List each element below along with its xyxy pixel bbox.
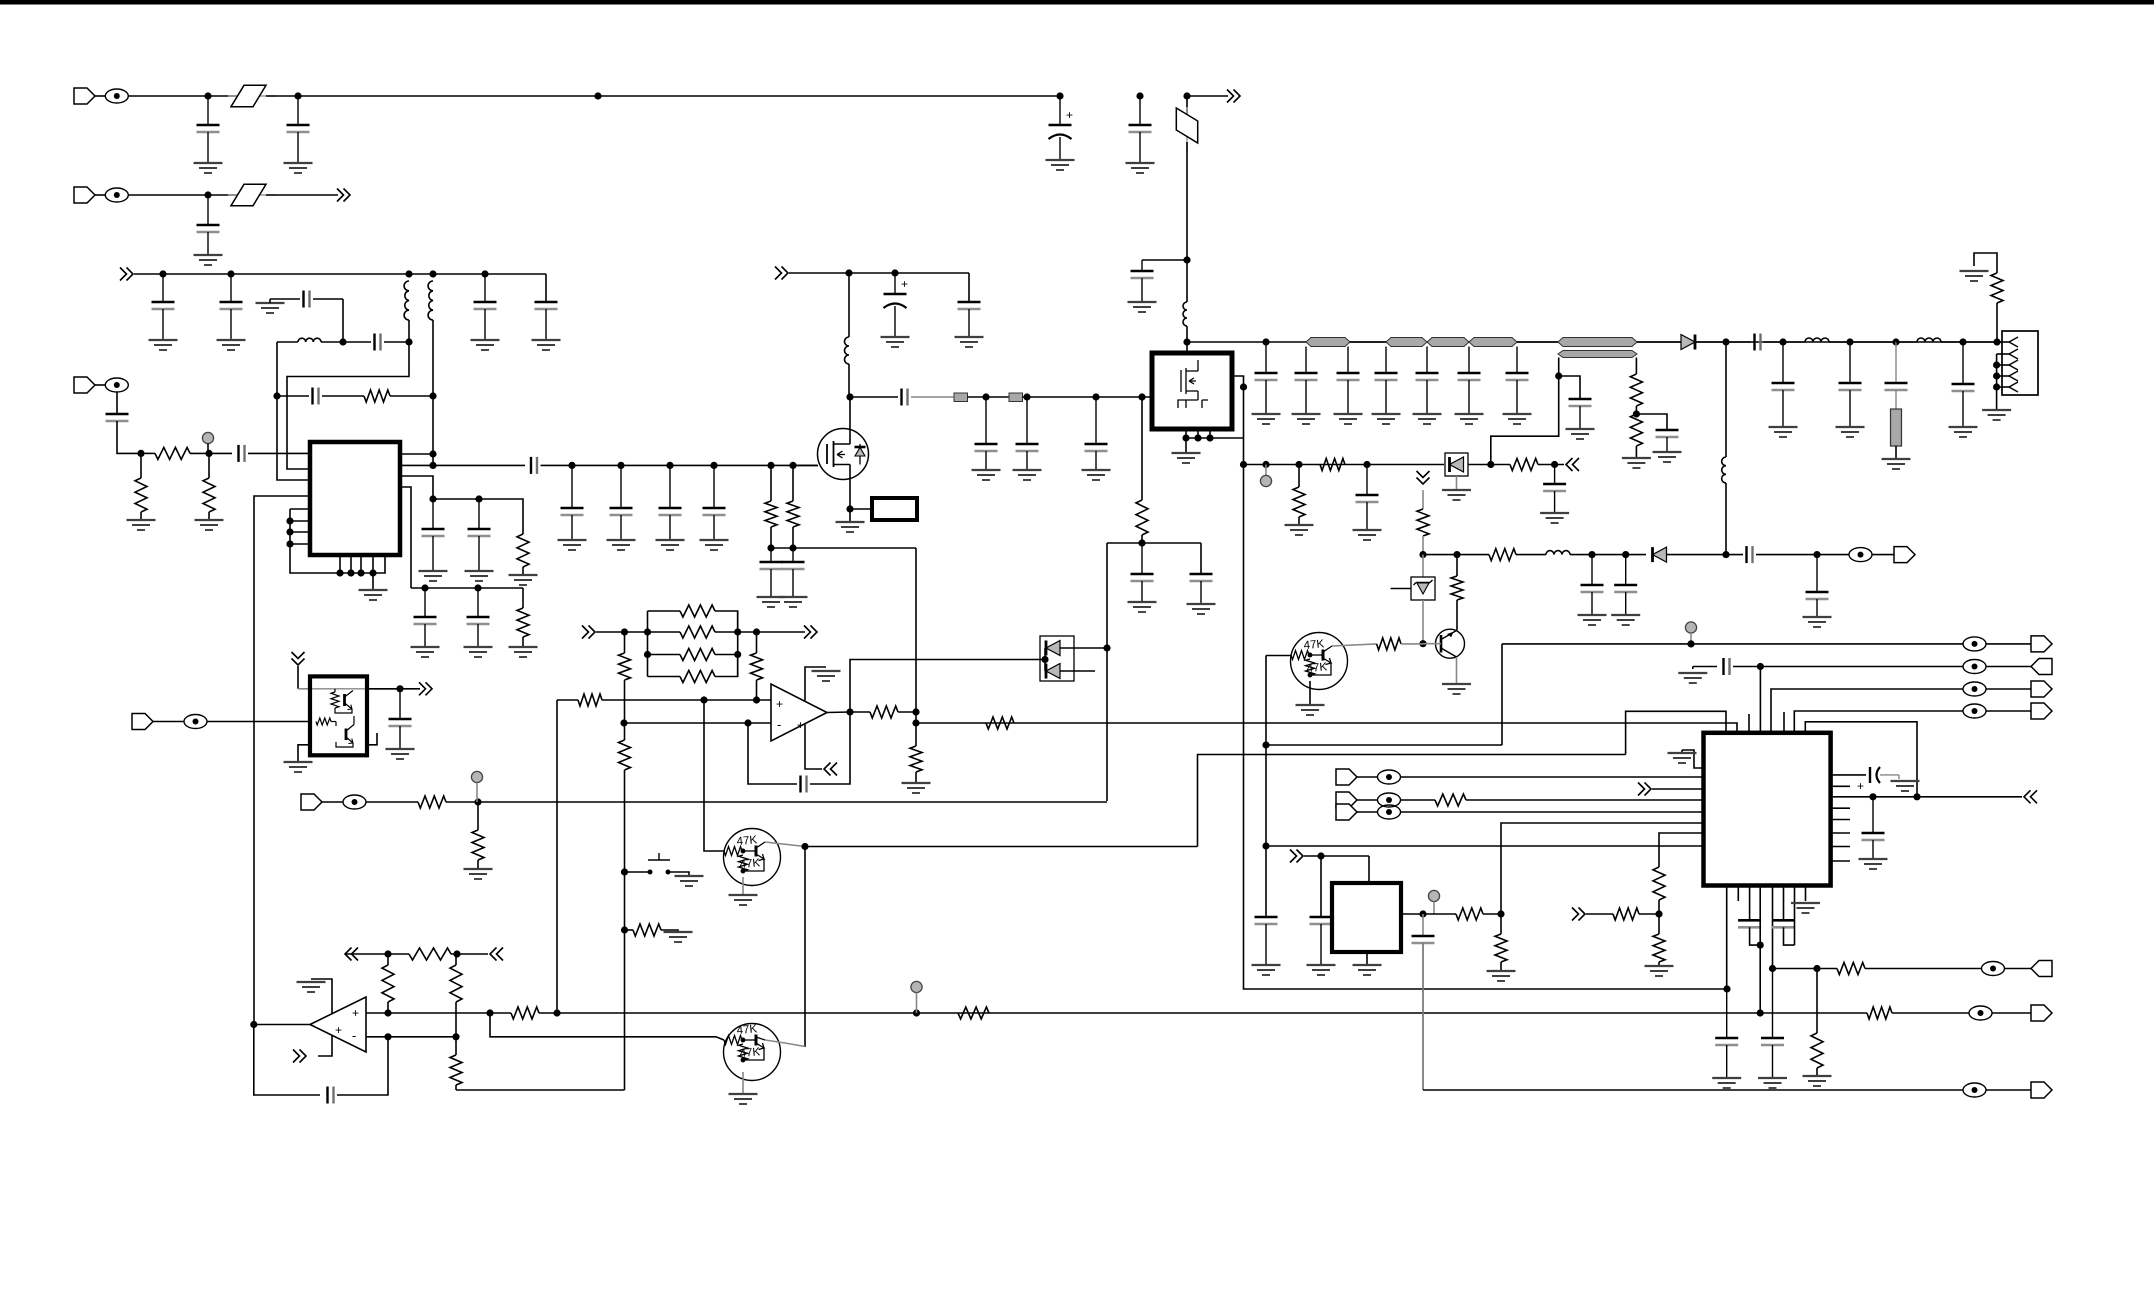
wire Q5 collector stub — [765, 1040, 785, 1043]
wire L8 out — [1941, 341, 1997, 343]
svg-text:+: + — [335, 1023, 342, 1037]
ground R6 — [509, 647, 538, 657]
wire PA output pin — [1232, 376, 1244, 465]
wire FB6 to U6 — [1401, 776, 1704, 778]
wire FB8 to U6 — [1401, 811, 1704, 813]
test point TP7 — [1428, 890, 1439, 901]
connector J17 — [2031, 1005, 2052, 1021]
ground C35 — [1252, 414, 1281, 424]
connector J11 — [2031, 681, 2052, 697]
svg-text:+: + — [901, 277, 908, 291]
node C5 tap — [1183, 256, 1190, 263]
resistor R28 — [680, 626, 715, 638]
wire C29 to R9 — [911, 396, 954, 398]
wire D2 to node — [1667, 554, 1727, 556]
wire R12 junction — [1635, 406, 1637, 414]
wire to F3 — [208, 194, 238, 196]
wire net to R23 — [738, 631, 757, 633]
stub TP6 — [476, 783, 478, 802]
junction C30 — [982, 393, 989, 400]
junction C27 — [891, 269, 898, 276]
wire J4 pin4 — [1997, 375, 2009, 377]
connector J12 — [2031, 703, 2052, 719]
wire J1-FB1 — [94, 95, 105, 97]
capacitor C3 (polarized) — [1049, 96, 1074, 160]
wire to C47 — [1559, 376, 1580, 399]
capacitor C45 + resonator — [1885, 342, 1908, 409]
wire J7-FB4 — [152, 721, 184, 723]
capacitor C13 — [313, 388, 319, 405]
capacitor C9 — [474, 274, 497, 340]
wire clk line vertical — [1422, 943, 1424, 1090]
diode D4a — [1046, 641, 1060, 656]
ground C34 — [1187, 604, 1216, 614]
lead R6 — [522, 637, 524, 647]
off-page VIN right — [1227, 90, 1240, 103]
resistor R19 — [1320, 459, 1345, 471]
ground Q5 — [729, 1094, 758, 1104]
ground C37 — [1334, 414, 1363, 424]
J4 pin3 — [2009, 360, 2018, 370]
wire U4 out — [254, 1024, 310, 1026]
resistor R41 — [472, 830, 484, 860]
lead R11 — [1141, 397, 1143, 500]
wire to R33 — [625, 929, 634, 931]
junction C59 — [1317, 852, 1324, 859]
junction R18 — [1295, 461, 1302, 468]
junction C46 — [1959, 338, 1966, 345]
off-page arrow U4 supply — [293, 1050, 306, 1063]
lead R36b — [455, 1085, 457, 1090]
junction C50 — [1622, 551, 1629, 558]
wire drain to C29 — [850, 396, 898, 398]
resistor R45 — [1653, 867, 1665, 900]
svg-text:+: + — [797, 718, 804, 732]
wire R20 out — [1538, 464, 1564, 466]
junction C9 — [481, 270, 488, 277]
M1 drain lead — [849, 429, 851, 445]
ground R41 — [464, 869, 493, 879]
junction R45 — [1655, 910, 1662, 917]
wire to C51 — [1726, 554, 1743, 556]
wire R17 to L9 — [1516, 554, 1546, 556]
capacitor C10 — [535, 302, 558, 340]
lead R43b — [1500, 962, 1502, 971]
off-page arrow U3 supply — [824, 763, 837, 776]
off-page arrow U5 top — [292, 652, 305, 665]
resistor R9 (SMD) — [954, 393, 968, 402]
wire C15 to U1 pin1 — [248, 452, 310, 454]
resistor R17 — [1489, 549, 1516, 561]
wire to J16 — [2005, 968, 2032, 970]
wire bus ground — [372, 573, 374, 590]
wire C65 to bus — [1750, 927, 1761, 945]
junction U3 output — [846, 708, 853, 715]
capacitor C23 — [659, 465, 682, 540]
capacitor C6 — [197, 195, 220, 255]
J4 pin2 — [2009, 349, 2018, 359]
wire corner C10 — [545, 274, 547, 302]
capacitor C28 — [958, 302, 981, 337]
M1 drain stub — [834, 443, 851, 445]
capacitor C53 — [1356, 465, 1379, 531]
wire U4 fb down — [254, 1025, 320, 1096]
junction C7 — [159, 270, 166, 277]
test point oval row1 — [1963, 637, 1986, 651]
wire op-amp1 output up — [850, 660, 1016, 713]
wire base feed Q4 — [704, 700, 724, 851]
wire J3-FB3 — [94, 384, 105, 386]
junction PA gnd1 — [1182, 434, 1189, 441]
wire PA-out long path to MCU — [1244, 465, 1728, 990]
wire L3 bottom to node H — [432, 320, 434, 396]
junction R7 — [767, 462, 774, 469]
transistor Q1 (47K digital) — [1291, 633, 1348, 690]
wire bias node to feedback — [771, 547, 916, 549]
resistor R23 — [751, 653, 763, 680]
ferrite bead FB8 — [1378, 805, 1401, 819]
wire U3 out stub — [827, 711, 850, 714]
wire +line to R50 — [1760, 1012, 1867, 1014]
wire mid branch R — [715, 631, 738, 633]
wire +line w — [490, 1012, 511, 1014]
wire zener top — [1422, 555, 1424, 577]
stub U6 pinR2 — [1831, 785, 1850, 787]
lead R16b — [1456, 600, 1458, 630]
wire U4 - in line — [366, 1036, 456, 1038]
wire detector line — [1244, 464, 1445, 466]
node B (C2 tap) — [294, 92, 301, 99]
capacitor C19 — [414, 588, 437, 647]
ground R25 — [902, 783, 931, 793]
junction U4 out — [250, 1021, 257, 1028]
wire Q5 collector2 — [785, 1043, 805, 1047]
junction C8 — [227, 270, 234, 277]
wire row2 east — [1760, 666, 1963, 668]
wire top branch L — [648, 610, 681, 612]
svg-text:-: - — [352, 1028, 356, 1043]
capacitor C39 — [1416, 347, 1439, 415]
wire to J11 — [1986, 688, 2031, 690]
junction pin12 — [369, 569, 376, 576]
wire J4 pin5 — [1997, 386, 2009, 388]
connector J13 — [1336, 769, 1357, 785]
resistor R18 — [1293, 487, 1305, 517]
stub U6 pinR y820 — [1831, 819, 1850, 821]
junction long line — [912, 719, 919, 726]
junction C31 — [1023, 393, 1030, 400]
wire J15-FB8 — [1356, 811, 1378, 813]
wire Q4 collector — [765, 842, 805, 847]
ground R48 — [1803, 1076, 1832, 1086]
wire bot branch R — [715, 655, 738, 677]
capacitor C52 — [1806, 555, 1829, 617]
wire to J9 — [1986, 1089, 2031, 1091]
junction coupler — [1555, 372, 1562, 379]
wire U5 gnd pin — [298, 745, 310, 762]
node drain junction — [846, 393, 853, 400]
wire J8-FB5 — [321, 801, 343, 803]
wire J13-FB6 — [1356, 776, 1378, 778]
wire R15 down — [1422, 536, 1424, 555]
wire SW1 to gnd — [668, 872, 689, 876]
lead R18 — [1298, 465, 1300, 488]
resistor R34 — [382, 965, 394, 1002]
resistor R3 — [155, 447, 190, 459]
wire U6 pinR3 (status) — [1831, 796, 2022, 798]
dual diode D4 (boxed) — [1040, 636, 1074, 681]
wire to R15 — [1422, 490, 1424, 509]
resistor R22 — [578, 694, 602, 706]
test point oval row4 — [1963, 704, 1986, 718]
capacitor C47 — [1569, 399, 1592, 429]
resistor R38 — [511, 1007, 539, 1019]
stub U6 top pin6 — [1783, 712, 1785, 733]
wire R42 out — [1483, 913, 1501, 915]
Q5 internals — [724, 1035, 765, 1062]
photo-diode D3 (boxed) — [1445, 453, 1468, 476]
wire U1 pin15 (IF out) — [400, 464, 525, 466]
wire gnd to C61 — [1693, 666, 1717, 668]
wire to J6 — [1986, 643, 2031, 645]
connector J3 — [74, 377, 95, 393]
resistor R6 — [517, 608, 529, 637]
inductor L9 — [1546, 551, 1570, 555]
wire Q1 emitter gnd — [1309, 681, 1311, 705]
lead R34b — [387, 1002, 389, 1013]
junction bus L2 — [644, 651, 651, 658]
junction pin8 — [286, 540, 293, 547]
wire C61 to node — [1733, 666, 1760, 668]
node A (C1 tap) — [204, 92, 211, 99]
ground R5 — [509, 575, 538, 585]
off-page row2 — [337, 189, 350, 202]
junction net bus L — [644, 628, 651, 635]
wire R45 to MCU — [1659, 833, 1704, 867]
TCXO X2 — [1332, 883, 1401, 952]
wire node E down — [276, 342, 278, 396]
wire J14-FB7 — [1356, 799, 1378, 801]
lead R41 — [477, 802, 479, 830]
wire L2 bottom — [408, 320, 410, 342]
test point oval rowC — [1969, 1006, 1992, 1020]
wire coupler right tap — [1635, 358, 1637, 375]
junction R8 — [789, 462, 796, 469]
wire to arrow — [400, 688, 420, 690]
junction R23 top — [753, 628, 760, 635]
capacitor C8 — [220, 274, 243, 340]
Q1 internals — [1291, 646, 1332, 677]
node H junction — [429, 392, 436, 399]
wire to R42 — [1423, 913, 1456, 915]
wire +line long east — [557, 1012, 1760, 1014]
resistor R29 — [680, 649, 715, 661]
ferrite bead FB6 — [1378, 770, 1401, 784]
wire net bus left — [647, 611, 649, 677]
wire divider down — [624, 872, 626, 930]
junction R8 bottom — [789, 544, 796, 551]
wire U3 V+ to gnd — [805, 667, 826, 701]
test point oval row3 — [1963, 682, 1986, 696]
ground U6 pinL0 — [1668, 753, 1697, 763]
off-page arrow U5 out — [419, 682, 432, 695]
junction x557 — [553, 1009, 560, 1016]
op-amp U4 — [310, 997, 366, 1052]
ground FL1 — [1882, 459, 1911, 469]
junction TP4 — [1687, 640, 1694, 647]
wire pwr to TCXO — [1368, 856, 1370, 883]
wire U1 pin11 — [360, 555, 362, 573]
wire C51 out — [1756, 554, 1817, 556]
ground C67 — [1758, 1078, 1787, 1088]
wire net bus right — [737, 611, 739, 677]
junction C18 — [475, 495, 482, 502]
resistor R24 — [870, 706, 898, 718]
wire U1 pin9 — [339, 555, 341, 573]
diode D2 — [1653, 547, 1667, 562]
wire arrow to R44 — [1586, 913, 1613, 915]
wire to L1 — [1186, 260, 1188, 302]
resistor R40 — [418, 796, 446, 808]
ground U4 — [297, 982, 326, 992]
junction +line end — [1757, 1009, 1764, 1016]
wire up and east y754 — [1198, 755, 1626, 847]
capacitor C42 — [1755, 334, 1761, 351]
svg-text:-: - — [777, 717, 781, 732]
ferrite bead FB7 — [1378, 793, 1401, 807]
junction C52 — [1813, 551, 1820, 558]
capacitor C49 — [1581, 555, 1604, 615]
lead R31b — [624, 680, 626, 723]
resistor R15 — [1417, 509, 1429, 536]
junction R2/R3 — [137, 450, 144, 457]
lead R11b — [1141, 535, 1143, 543]
junction C21 — [568, 462, 575, 469]
junction pin11 — [357, 569, 364, 576]
junction R33 — [621, 926, 628, 933]
wire to Q5 base — [490, 1013, 724, 1040]
M1 source stub — [834, 464, 851, 466]
junction coupler feed — [1487, 461, 1494, 468]
lead R32b — [624, 770, 626, 872]
junction pin5 — [1993, 383, 2000, 390]
lead R35 — [455, 954, 457, 965]
ground U6 pinB8 — [1791, 903, 1820, 913]
capacitor C41 — [1506, 347, 1529, 415]
wire long vertical x1107 — [1106, 543, 1108, 801]
antenna connector J4 — [2002, 331, 2038, 395]
ground C23 — [656, 540, 685, 550]
ground C1 — [194, 163, 223, 173]
wire U6 pinR1 — [1831, 774, 1866, 776]
test point oval rowB — [1982, 962, 2005, 976]
capacitor C21 — [561, 465, 584, 540]
capacitor C38 — [1375, 347, 1398, 415]
capacitor C56 — [801, 776, 807, 793]
capacitor C12 — [375, 334, 381, 351]
connector J10 — [2031, 659, 2052, 675]
stub gnd C61 — [1692, 667, 1694, 670]
wire to C42 — [1726, 341, 1751, 343]
stub U6 pinB2 — [1737, 886, 1739, 902]
junction C24 — [710, 462, 717, 469]
capacitor C54 — [1543, 465, 1566, 514]
ground R13 — [1622, 458, 1651, 468]
off-page arrow down (power ctl) — [1417, 471, 1430, 484]
resistor R32 — [619, 740, 631, 770]
off-page arrow mid rail — [775, 267, 788, 280]
connector J8 — [301, 794, 322, 810]
wire arrow to U5 — [297, 666, 299, 689]
transistor Q5 (47K digital) — [724, 1024, 781, 1081]
lead R48 — [1816, 969, 1818, 1034]
ground C31 — [1013, 470, 1042, 480]
stub gnd C11 — [269, 299, 271, 303]
junction TP3 — [1262, 461, 1269, 468]
junction R4 — [205, 450, 212, 457]
junction TP5 — [913, 1009, 920, 1016]
wire vertical x557 — [556, 700, 558, 1013]
resistor R13 — [1630, 414, 1642, 446]
wire L5 to drain — [848, 364, 850, 397]
wire row1 long — [298, 95, 1060, 97]
ground R14 — [1960, 271, 1989, 281]
junction R35 — [452, 1033, 459, 1040]
ground C49 — [1578, 615, 1607, 625]
ground C41 — [1503, 414, 1532, 424]
resistor R37 — [409, 948, 451, 960]
svg-text:47K: 47K — [1303, 638, 1325, 652]
capacitor C37 — [1337, 347, 1360, 415]
wire to C5 — [1142, 259, 1187, 261]
junction C54 — [1551, 461, 1558, 468]
wire U6 top pin5 row3 — [1771, 689, 1963, 733]
junction R11 — [1138, 393, 1145, 400]
wire J4 pin3 — [1997, 364, 2009, 366]
capacitor C43 — [1772, 342, 1795, 427]
wire net in — [596, 631, 648, 633]
svg-text:+: + — [1857, 779, 1864, 793]
wire node I — [433, 498, 479, 500]
thick trace T2 — [1386, 338, 1427, 347]
test point TP4 — [1685, 622, 1696, 633]
test point TP3 — [1260, 475, 1271, 486]
stub TP1 — [207, 444, 209, 454]
wire Q2 emitter — [1456, 657, 1458, 684]
wire MCU RF ctl line — [1266, 845, 1704, 847]
ferrite bead FB3 — [105, 378, 128, 392]
ground C38 — [1372, 414, 1401, 424]
wire rail segment3 — [1517, 341, 1558, 343]
connector J5 — [1894, 547, 1915, 563]
node I junction — [429, 495, 436, 502]
wire L1 to rail — [1186, 326, 1188, 342]
ground U5 — [284, 762, 313, 772]
capacitor C24 — [703, 465, 726, 540]
ground C47 — [1566, 429, 1595, 439]
junction R41 — [474, 798, 481, 805]
junction divider — [620, 719, 627, 726]
junction pin9 — [336, 569, 343, 576]
svg-text:47K: 47K — [739, 857, 761, 871]
wire U6 top pin7 row4 — [1794, 711, 1963, 733]
junction D4 in — [1041, 656, 1048, 663]
junction bus R2 — [734, 651, 741, 658]
ground C9 — [471, 340, 500, 350]
capacitor C7 — [152, 274, 175, 340]
wire Q4 emitter gnd — [742, 877, 744, 895]
lead R13 — [1635, 446, 1637, 458]
